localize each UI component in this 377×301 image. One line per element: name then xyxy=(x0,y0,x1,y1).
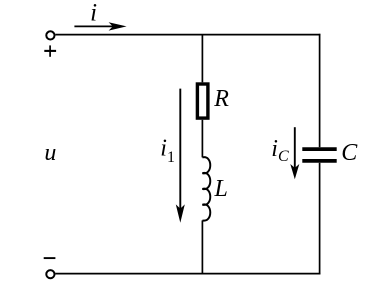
wire right branch upper xyxy=(319,34,321,147)
plus sign xyxy=(44,45,56,56)
svg-text:L: L xyxy=(214,176,228,202)
terminal top-left xyxy=(46,31,54,39)
minus sign xyxy=(44,257,56,259)
current arrow i (top) xyxy=(74,22,126,30)
terminal bottom-left xyxy=(46,270,54,278)
wire top rail xyxy=(55,34,320,36)
wire middle branch top xyxy=(201,34,203,82)
wire middle branch between R and L xyxy=(201,120,203,158)
current arrow i1 xyxy=(176,89,185,223)
wire right branch lower xyxy=(319,163,321,275)
wire middle branch bottom xyxy=(201,220,203,273)
svg-text:i: i xyxy=(90,0,97,27)
svg-text:u: u xyxy=(44,140,56,166)
resistor R xyxy=(197,84,208,118)
svg-text:i1: i1 xyxy=(160,135,175,166)
inductor L xyxy=(202,157,210,220)
svg-text:R: R xyxy=(213,86,229,112)
capacitor C bottom plate xyxy=(302,159,336,163)
svg-text:iC: iC xyxy=(271,136,289,165)
current arrow iC xyxy=(290,127,299,179)
svg-text:C: C xyxy=(341,140,358,166)
capacitor C top plate xyxy=(302,147,336,151)
wire bottom rail xyxy=(55,273,320,275)
